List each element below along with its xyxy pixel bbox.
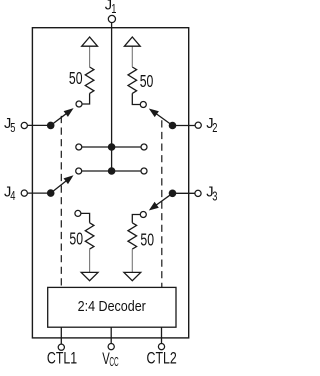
svg-text:CTL1: CTL1: [47, 350, 77, 368]
svg-text:2:4 Decoder: 2:4 Decoder: [78, 299, 146, 315]
svg-text:50: 50: [140, 229, 154, 249]
svg-text:CTL2: CTL2: [147, 350, 177, 368]
svg-text:3: 3: [212, 188, 217, 203]
svg-text:1: 1: [111, 1, 116, 16]
svg-text:CC: CC: [109, 354, 118, 369]
svg-text:4: 4: [10, 188, 15, 203]
svg-text:50: 50: [69, 68, 83, 88]
svg-text:50: 50: [140, 71, 154, 91]
svg-text:2: 2: [212, 120, 217, 135]
svg-text:50: 50: [69, 229, 83, 249]
svg-text:5: 5: [10, 120, 15, 135]
